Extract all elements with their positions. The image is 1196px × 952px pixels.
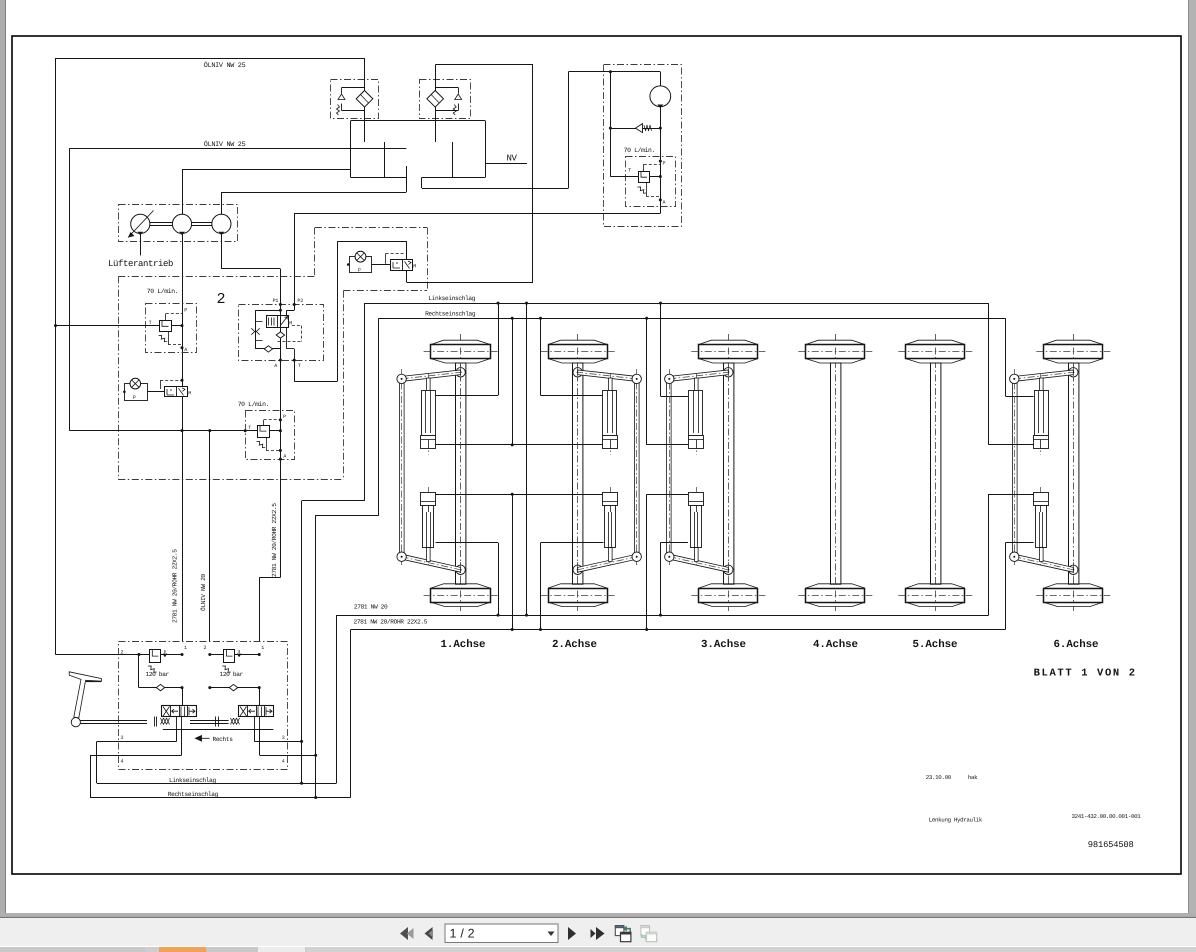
steering unit enclosure S bbox=[119, 642, 288, 770]
wire L1 riser to bottom bus bbox=[336, 615, 338, 783]
toolbar background bbox=[0, 918, 1196, 946]
toolbar history forward icon (disabled) bbox=[641, 926, 650, 936]
left gray window edge bbox=[0, 0, 5, 914]
svg-text:6.Achse: 6.Achse bbox=[1053, 639, 1098, 651]
pilot line RV1 bbox=[165, 314, 167, 321]
bottom gray band above toolbar bbox=[0, 913, 1196, 918]
svg-text:Linkseinschlag: Linkseinschlag bbox=[169, 777, 216, 784]
wire below valve blocks bbox=[163, 729, 274, 731]
wire relief branch left bbox=[138, 655, 140, 688]
svg-text:P: P bbox=[283, 414, 286, 420]
wire port 4 right bbox=[260, 755, 316, 757]
wire valve E bottom to T bbox=[286, 328, 288, 349]
svg-text:P2: P2 bbox=[297, 298, 303, 304]
svg-text:2781 NW 20/ROHR 22X2.5: 2781 NW 20/ROHR 22X2.5 bbox=[271, 503, 278, 577]
kingpin axle1 bottom bbox=[456, 565, 465, 574]
wire pipes into valve blocks bbox=[182, 688, 184, 706]
kingpin axle2 bottom bbox=[573, 565, 582, 574]
filter F2 bypass check valve bbox=[435, 87, 458, 89]
wire valve D supply bbox=[337, 241, 407, 243]
svg-text:A: A bbox=[274, 363, 277, 369]
svg-text:A: A bbox=[663, 199, 666, 205]
wire Links riser bbox=[301, 501, 303, 783]
svg-text:23.10.00: 23.10.00 bbox=[926, 774, 952, 781]
axle 6 assembly bbox=[1010, 334, 1111, 612]
steering arm axle3 bottom bbox=[669, 554, 728, 572]
tie rod axle6 bbox=[1013, 383, 1018, 552]
steering arm axle2 bottom bbox=[578, 554, 637, 572]
kingpin axle3 bottom bbox=[724, 565, 733, 574]
drain line RV1 bbox=[168, 331, 170, 345]
svg-text:M: M bbox=[413, 264, 416, 270]
wire port 4 left bbox=[90, 755, 182, 757]
svg-text:A: A bbox=[283, 453, 286, 459]
svg-text:hak: hak bbox=[968, 774, 978, 781]
tank baffle left bbox=[384, 142, 386, 177]
right gray window edge bbox=[1189, 0, 1196, 914]
wire A-line down to steering jog bbox=[280, 459, 282, 577]
wire suction line OLNIV NW 25 top bbox=[56, 58, 365, 60]
cylinder axle1 upper bbox=[428, 374, 430, 456]
wire Linkseinschlag top bus bbox=[364, 303, 988, 305]
filter F2 pipe bbox=[435, 65, 437, 142]
svg-text:2781 NW 20/ROHR 22X2.5: 2781 NW 20/ROHR 22X2.5 bbox=[354, 619, 428, 626]
svg-text:70 L/min.: 70 L/min. bbox=[238, 401, 269, 408]
valve V2 2/2 bbox=[165, 387, 188, 397]
drain line RV3 bbox=[646, 183, 648, 196]
wire axle3 upper cap line bbox=[647, 444, 688, 446]
wire port2 row left bbox=[56, 654, 150, 656]
axle 4 assembly bbox=[798, 334, 872, 612]
axle 2 beam bbox=[573, 363, 583, 584]
svg-text:4: 4 bbox=[282, 758, 285, 764]
wire P2 jog into valve E bbox=[294, 305, 296, 311]
wire motor inlet stub bbox=[660, 72, 662, 86]
wire axle2 upper rod line bbox=[541, 395, 604, 397]
valve E spool bbox=[267, 316, 289, 328]
axle 2 assembly bbox=[541, 334, 642, 612]
wire E left compensator loop bbox=[256, 310, 281, 312]
relief valve RV1 bbox=[56, 325, 160, 327]
wire Rechts riser bbox=[315, 515, 317, 797]
svg-text:70 L/min.: 70 L/min. bbox=[147, 288, 178, 295]
wheel axle6 top bbox=[1044, 340, 1103, 344]
toolbar first page button bbox=[400, 927, 408, 940]
svg-text:2: 2 bbox=[217, 291, 226, 308]
svg-text:2781 NW 20: 2781 NW 20 bbox=[354, 604, 388, 611]
pressure gauge G2 bbox=[350, 257, 372, 273]
svg-text:3.Achse: 3.Achse bbox=[701, 639, 746, 651]
svg-text:NV: NV bbox=[507, 154, 518, 164]
steering arm axle1 top bbox=[402, 370, 461, 381]
filter F1 bypass check valve bbox=[342, 87, 365, 89]
steering arm axle6 top bbox=[1014, 370, 1073, 381]
svg-text:T: T bbox=[628, 167, 631, 173]
wire motor supply top bbox=[569, 71, 661, 73]
check valve motor bypass bbox=[610, 128, 660, 130]
orifice in loop bbox=[251, 328, 259, 334]
relief valve RV1 enclosure bbox=[146, 304, 197, 353]
svg-text:3241-432.00.00.001-001: 3241-432.00.00.001-001 bbox=[1072, 813, 1142, 820]
axle 1 assembly bbox=[397, 334, 498, 612]
svg-text:P1: P1 bbox=[273, 298, 279, 304]
svg-text:Linkseinschlag: Linkseinschlag bbox=[428, 295, 475, 302]
check valve row right bbox=[210, 687, 259, 689]
steering valve block right bbox=[239, 706, 274, 717]
wire axle6 lower rod line bbox=[1006, 542, 1034, 544]
wire port 3 right bbox=[254, 741, 301, 743]
tank reservoir bbox=[351, 120, 486, 122]
svg-text:Rechts: Rechts bbox=[213, 736, 234, 743]
relief valve RV2 tank line bbox=[69, 430, 257, 432]
axle 6 beam bbox=[1069, 363, 1079, 584]
wire axle6 lower cap line bbox=[989, 494, 1034, 496]
wire Links bus left leg bbox=[364, 303, 366, 501]
check valve in loop bottom bbox=[264, 346, 272, 352]
relief valve RV4 bbox=[150, 650, 161, 663]
tank suction dip pipe bbox=[406, 166, 408, 192]
test gauge enclosure D bbox=[315, 227, 427, 229]
wire axle1 lower rod line bbox=[436, 542, 498, 544]
svg-text:M: M bbox=[289, 320, 292, 326]
svg-text:5.Achse: 5.Achse bbox=[912, 639, 957, 651]
pressure gauge G1 bbox=[125, 384, 148, 401]
pilot line valve V2 bbox=[160, 380, 182, 382]
wire L2 riser to bottom bus bbox=[350, 630, 352, 798]
filter F1 element bbox=[356, 91, 373, 108]
bottom taskbar strip bbox=[0, 947, 1196, 952]
wheel axle2 bottom bbox=[548, 584, 607, 588]
svg-text:ÖLNIV NW 25: ÖLNIV NW 25 bbox=[204, 140, 246, 149]
cylinder axle3 lower bbox=[696, 487, 698, 568]
filter F2 enclosure bbox=[420, 80, 471, 119]
wire axle3 lower cap line bbox=[647, 494, 688, 496]
svg-text:3: 3 bbox=[121, 735, 124, 741]
wheel axle3 top bbox=[699, 340, 758, 344]
svg-text:120 bar: 120 bar bbox=[146, 671, 170, 678]
kingpin axle3 top bbox=[724, 368, 733, 377]
svg-text:ρ: ρ bbox=[133, 394, 136, 400]
tie rod axle1 bbox=[400, 383, 405, 552]
wire Rechts bus left leg bbox=[378, 318, 380, 515]
kingpin axle2 top bbox=[573, 368, 582, 377]
toolbar history back icon bbox=[615, 926, 624, 936]
tie rod axle2 bbox=[635, 383, 640, 552]
wire filter F2 top to manifold riser bbox=[435, 64, 533, 66]
wire axle6 upper rod line bbox=[1006, 396, 1034, 398]
wheel axle6 bottom bbox=[1044, 584, 1103, 588]
filter F1 enclosure bbox=[331, 80, 379, 119]
pilot stubs bbox=[256, 321, 263, 323]
svg-text:70 L/min.: 70 L/min. bbox=[624, 147, 655, 154]
svg-text:A: A bbox=[184, 347, 187, 353]
wire motor circuit return (to node P2) bbox=[660, 161, 662, 213]
relief valve RV5 bbox=[224, 650, 235, 663]
check valve row left bbox=[139, 687, 182, 689]
svg-text:BLATT 1 VON 2: BLATT 1 VON 2 bbox=[1034, 667, 1136, 679]
svg-text:4.Achse: 4.Achse bbox=[813, 639, 858, 651]
filter F1 pipe bbox=[364, 58, 366, 142]
steering column joint bbox=[71, 718, 80, 727]
wheel axle4 top bbox=[806, 340, 865, 344]
wheel axle5 top bbox=[906, 340, 965, 344]
kingpin axle1 top bbox=[456, 368, 465, 377]
node NV port bbox=[485, 163, 527, 165]
tank baffle right bbox=[452, 142, 454, 177]
pump P1 variable fan drive bbox=[131, 214, 150, 233]
cylinder axle1 lower bbox=[428, 487, 430, 568]
valve group enclosure C bbox=[118, 276, 315, 278]
pump P2 bbox=[172, 214, 191, 233]
axle 3 assembly bbox=[665, 334, 766, 612]
svg-text:2.Achse: 2.Achse bbox=[552, 639, 597, 651]
svg-text:Lenkung Hydraulik: Lenkung Hydraulik bbox=[929, 817, 983, 824]
svg-text:981654508: 981654508 bbox=[1088, 840, 1134, 850]
wire bottom bus L1 (2781 NW 20) bbox=[336, 615, 988, 617]
dropdown caret bbox=[548, 932, 555, 937]
wheel axle4 bottom bbox=[806, 584, 865, 588]
wire axle1 upper cap line bbox=[436, 444, 604, 446]
wire axle1-2 lower cap line bbox=[436, 494, 604, 496]
wire pump P2 pressure line (to steering port 1 left) bbox=[182, 234, 184, 642]
pilot line valve V3 bbox=[386, 253, 406, 255]
svg-text:ρ: ρ bbox=[358, 266, 361, 272]
kingpin axle6 top bbox=[1069, 368, 1078, 377]
svg-text:120 bar: 120 bar bbox=[220, 671, 244, 678]
wire pump P2 suction bbox=[182, 170, 184, 215]
wire pump P3 suction bbox=[221, 192, 223, 214]
svg-text:Rechtseinschlag: Rechtseinschlag bbox=[425, 311, 476, 318]
wire Linkseinschlag bottom link bbox=[97, 783, 336, 785]
svg-text:4: 4 bbox=[121, 758, 124, 764]
wheel axle1 bottom bbox=[431, 584, 490, 588]
tie rod axle3 bbox=[667, 383, 672, 552]
relief valve RV2 enclosure bbox=[246, 411, 295, 460]
wire motor to check row bbox=[660, 107, 662, 214]
relief valve RV3 enclosure bbox=[626, 157, 676, 207]
wheel axle5 bottom bbox=[906, 584, 965, 588]
label Rechts with arrow bbox=[196, 736, 210, 741]
wire gauge G1 to valve V2 bbox=[147, 391, 165, 393]
pilot line RV3 bbox=[643, 164, 645, 172]
axle 3 beam bbox=[724, 363, 734, 584]
orange taskbar segment bbox=[159, 947, 206, 952]
toolbar last page button bbox=[591, 929, 596, 938]
kingpin axle6 bottom bbox=[1069, 565, 1078, 574]
relief RV5 drain arrow bbox=[237, 650, 241, 657]
relief valve RV3 bbox=[610, 176, 638, 178]
wire motor loop left leg bbox=[610, 72, 612, 177]
motor M1 bbox=[650, 86, 671, 107]
wheel axle1 top bbox=[431, 340, 490, 344]
toolbar next page button bbox=[568, 927, 576, 940]
cylinder axle6 lower bbox=[1040, 487, 1042, 568]
svg-text:3: 3 bbox=[282, 735, 285, 741]
svg-text:1.Achse: 1.Achse bbox=[440, 639, 485, 651]
wire gauge to valve D bbox=[372, 264, 391, 266]
wire port 3 left bbox=[97, 741, 177, 743]
wire axle2 lower rod line bbox=[541, 542, 604, 544]
check valve on P1 branch bbox=[280, 305, 282, 361]
steering arm axle6 bottom bbox=[1014, 554, 1073, 572]
axle 5 assembly bbox=[898, 334, 972, 612]
valve V3 2/2 bbox=[391, 260, 413, 271]
cylinder axle3 upper bbox=[696, 374, 698, 456]
axle 4 beam bbox=[831, 363, 841, 584]
toolbar previous page button bbox=[425, 927, 433, 940]
filter F2 element bbox=[427, 91, 444, 108]
drain line RV2 bbox=[266, 437, 268, 450]
axle 1 beam bbox=[456, 363, 466, 584]
steering shaft right bbox=[190, 720, 229, 722]
wire valve D to node T riser bbox=[337, 241, 339, 381]
wire axle3 lower rod line bbox=[661, 542, 688, 544]
svg-text:P: P bbox=[663, 160, 666, 166]
wire axle6 upper cap line bbox=[989, 444, 1034, 446]
steering arm axle1 bottom bbox=[402, 554, 461, 572]
svg-text:Rechtseinschlag: Rechtseinschlag bbox=[168, 791, 219, 798]
wire Rechtseinschlag bottom link bbox=[90, 797, 351, 799]
pump group enclosure bbox=[119, 205, 238, 242]
wheel axle2 top bbox=[548, 340, 607, 344]
wire pump P1 drain to fan drive bbox=[140, 234, 142, 256]
motor circuit enclosure bbox=[604, 65, 682, 227]
pump drive shaft bbox=[150, 222, 173, 224]
light taskbar segment bbox=[258, 947, 305, 952]
cylinder axle2 lower bbox=[610, 487, 612, 568]
cylinder axle6 upper bbox=[1040, 374, 1042, 456]
svg-text:ÖLNIV NW 20: ÖLNIV NW 20 bbox=[200, 574, 207, 611]
pilot line RV2 bbox=[263, 420, 265, 425]
svg-text:P: P bbox=[184, 307, 187, 313]
wire axle1 upper rod line bbox=[436, 395, 498, 397]
steering arm axle2 top bbox=[578, 370, 637, 381]
svg-text:2781 NW 20/ROHR 22X2.5: 2781 NW 20/ROHR 22X2.5 bbox=[172, 549, 179, 623]
svg-text:T: T bbox=[298, 363, 301, 369]
wire pump P3 pressure line to node P1 bbox=[221, 234, 223, 269]
relief valve RV2 bbox=[258, 426, 270, 438]
svg-text:ÖLNIV NW 25: ÖLNIV NW 25 bbox=[204, 61, 246, 70]
svg-text:M: M bbox=[188, 390, 191, 396]
relief RV4 drain arrow bbox=[163, 650, 167, 657]
steering arm axle3 top bbox=[669, 370, 728, 381]
svg-text:Lüfterantrieb: Lüfterantrieb bbox=[108, 259, 173, 269]
steering valve block left bbox=[162, 706, 197, 717]
pilot dashed loop E bbox=[292, 325, 301, 327]
wire bottom bus L2 (2781 NW 20/ROHR 22X2.5) bbox=[351, 629, 1006, 631]
svg-text:2: 2 bbox=[204, 645, 207, 651]
wire tank drain to motor return bbox=[421, 177, 423, 188]
svg-text:1: 1 bbox=[261, 645, 264, 651]
wheel axle3 bottom bbox=[699, 584, 758, 588]
svg-text:1 / 2: 1 / 2 bbox=[450, 927, 475, 941]
wire tank return line to steering port 2 bbox=[209, 431, 211, 642]
pump P3 bbox=[212, 214, 231, 233]
steering tiller handle bbox=[69, 672, 101, 718]
toolbar page number box bbox=[445, 924, 558, 943]
axle 5 beam bbox=[931, 363, 941, 584]
steering shaft left bbox=[80, 720, 147, 722]
cylinder axle2 upper bbox=[610, 374, 612, 456]
wire Rechtseinschlag top bus bbox=[379, 318, 1006, 320]
svg-text:1: 1 bbox=[184, 645, 187, 651]
wire suction line OLNIV NW 25 second bbox=[69, 148, 406, 150]
flow divider enclosure E bbox=[239, 305, 324, 361]
wire Links pass-through axle1-2 bbox=[526, 303, 528, 615]
wire axle3 upper rod line bbox=[661, 396, 688, 398]
